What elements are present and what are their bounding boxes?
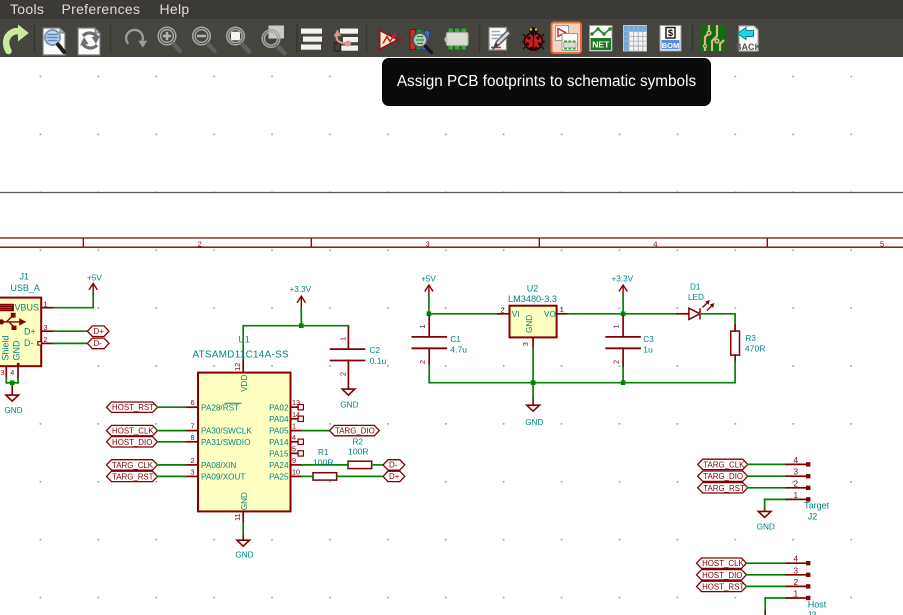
svg-text:J3: J3 — [807, 610, 817, 615]
icon: PCB editor — [701, 25, 726, 51]
svg-text:4: 4 — [653, 240, 657, 249]
svg-text:2: 2 — [612, 360, 621, 364]
svg-text:TARG_RST: TARG_RST — [703, 484, 745, 493]
svg-text:1: 1 — [612, 324, 621, 328]
tooltip — [382, 58, 711, 106]
separators — [35, 24, 693, 52]
global label HOST_DIO (J3) — [697, 570, 747, 580]
svg-text:4.7u: 4.7u — [450, 344, 467, 354]
wire +5V to U2 VI — [429, 297, 498, 314]
svg-text:HOST_CLK: HOST_CLK — [112, 427, 154, 436]
svg-text:PA02: PA02 — [269, 403, 289, 412]
svg-text:TARG_CLK: TARG_CLK — [112, 461, 154, 470]
svg-text:USB_A: USB_A — [10, 283, 40, 293]
svg-text:D-: D- — [24, 338, 34, 348]
global label TARG_DIO (U1) — [330, 425, 380, 435]
J3 designator — [807, 599, 827, 615]
svg-text:GND: GND — [12, 340, 22, 361]
svg-text:PA30/SWCLK: PA30/SWCLK — [201, 427, 252, 436]
svg-text:100R: 100R — [313, 458, 334, 468]
svg-text:+3.3V: +3.3V — [612, 274, 634, 283]
U2 pin 1 (VO) — [557, 305, 568, 314]
svg-text:12: 12 — [233, 363, 242, 371]
svg-text:TARG_DIO: TARG_DIO — [335, 427, 375, 436]
svg-text:J2: J2 — [808, 511, 818, 521]
svg-text:HOST_DIO: HOST_DIO — [702, 571, 742, 580]
sheet column numbers — [198, 240, 884, 249]
svg-text:100R: 100R — [348, 447, 369, 457]
svg-text:C2: C2 — [370, 346, 381, 355]
svg-text:GND: GND — [525, 315, 534, 333]
svg-text:ATSAMD11C14A-SS: ATSAMD11C14A-SS — [193, 350, 289, 361]
U1 left pin names — [201, 403, 252, 481]
global label TARG_DIO (J2) — [698, 471, 748, 481]
menu bar — [0, 0, 903, 19]
wire R3 to gnd rail — [734, 361, 736, 383]
svg-text:PA14: PA14 — [269, 438, 289, 447]
svg-text:3: 3 — [521, 342, 530, 346]
wire U2 gnd to rail — [532, 348, 534, 399]
global label TARG_RST (U1) — [107, 471, 158, 481]
wire PA05 to TARG_DIO — [302, 430, 329, 432]
junction (J1 gnd) — [10, 381, 15, 386]
icon: refresh view — [126, 30, 147, 48]
global label D+ (USB) — [87, 326, 109, 337]
svg-text:14: 14 — [292, 410, 300, 419]
wire C1 down to gnd rail — [429, 365, 533, 383]
toolbar — [0, 19, 903, 57]
U1 right pin names — [269, 403, 289, 481]
svg-text:$: $ — [668, 28, 673, 38]
U1 left pin numbers — [190, 398, 194, 476]
icon: back annotate — [735, 26, 761, 52]
U1 right pin stubs — [291, 405, 304, 477]
svg-text:GND: GND — [757, 522, 775, 531]
U1 VDD pin — [233, 361, 249, 392]
LED D1 — [677, 282, 714, 319]
svg-text:+3.3V: +3.3V — [290, 285, 312, 294]
svg-text:TARG_DIO: TARG_DIO — [703, 472, 743, 481]
J1 pin numbers — [1, 300, 48, 377]
sheet border frame — [0, 238, 903, 247]
svg-text:TARG_RST: TARG_RST — [112, 472, 154, 481]
svg-text:D-: D- — [389, 461, 398, 470]
wire +3.3V stem — [622, 297, 624, 314]
svg-text:PA04: PA04 — [269, 415, 289, 424]
wire D- — [54, 342, 88, 344]
resistor R2 — [348, 437, 372, 468]
svg-text:D1: D1 — [690, 282, 701, 291]
wire J1 pins 3,4 to GND — [6, 378, 18, 386]
svg-text:PA05: PA05 — [269, 427, 289, 436]
svg-text:PA25: PA25 — [269, 472, 289, 481]
U2 pin 2 (VI) — [498, 305, 510, 314]
icon: zoom selection — [227, 27, 249, 51]
junction (U2 gnd / rail) — [531, 380, 536, 385]
global label HOST_RST (J3) — [697, 581, 747, 591]
U2 pin 3 (GND) — [521, 337, 533, 348]
wire PA25 to R1 to D+ — [302, 475, 383, 477]
svg-text:2: 2 — [198, 240, 202, 249]
svg-text:NET: NET — [592, 40, 610, 50]
svg-text:PA15: PA15 — [269, 450, 289, 459]
svg-text:8: 8 — [190, 433, 194, 442]
svg-text:3: 3 — [426, 240, 430, 249]
svg-text:2: 2 — [338, 372, 347, 376]
icon: hierarchy navigator — [334, 29, 359, 52]
svg-text:1: 1 — [560, 305, 564, 314]
svg-text:3: 3 — [794, 468, 799, 477]
svg-text:BACK: BACK — [735, 42, 761, 52]
wires J3 labels to pins — [747, 563, 787, 610]
icon: zoom fit — [262, 26, 284, 54]
svg-text:GND: GND — [340, 401, 358, 410]
ground (U2) — [525, 399, 543, 427]
wire +3.3V rail to U1 and C2 — [243, 308, 348, 361]
resistor R3 — [731, 325, 766, 361]
svg-text:4: 4 — [794, 456, 799, 465]
U1 GND pin — [233, 492, 249, 523]
svg-text:HOST_CLK: HOST_CLK — [702, 559, 744, 568]
svg-text:3: 3 — [190, 467, 194, 476]
svg-text:1: 1 — [338, 337, 347, 341]
svg-text:D+: D+ — [24, 326, 36, 336]
svg-text:2: 2 — [44, 335, 48, 344]
svg-text:R2: R2 — [353, 437, 364, 446]
svg-text:0.1u: 0.1u — [370, 356, 387, 366]
svg-text:GND: GND — [240, 492, 249, 510]
svg-text:+5V: +5V — [87, 274, 102, 283]
junction (+3.3V rail) — [299, 323, 304, 328]
svg-text:D+: D+ — [94, 327, 105, 336]
svg-text:+5V: +5V — [421, 274, 436, 283]
svg-text:2: 2 — [418, 360, 427, 364]
icon: assign footprints (selected) — [552, 23, 582, 54]
svg-text:PA31/SWDIO: PA31/SWDIO — [201, 438, 250, 447]
connector J1 body — [0, 272, 41, 367]
svg-text:Target: Target — [804, 500, 830, 510]
icon: find in page — [43, 28, 65, 55]
global label HOST_CLK (J3) — [697, 558, 747, 568]
gnd rail wire — [533, 382, 735, 384]
connector J3 pins — [787, 561, 811, 600]
power +5V (USB) — [87, 274, 102, 295]
power +3.3V (rail) — [612, 274, 634, 296]
svg-text:PA08/XIN: PA08/XIN — [201, 461, 236, 470]
connector J2 pins — [787, 462, 811, 501]
svg-text:HOST_DIO: HOST_DIO — [112, 438, 152, 447]
icon: library browser — [410, 30, 432, 53]
svg-text:HOST_RST: HOST_RST — [112, 403, 154, 412]
svg-text:7: 7 — [190, 422, 194, 431]
icon: edit page — [489, 28, 511, 51]
svg-text:PA24: PA24 — [269, 461, 289, 470]
capacitor C3 — [605, 316, 654, 367]
mcu U1 body — [193, 334, 291, 511]
svg-text:470R: 470R — [745, 344, 766, 354]
global label TARG_RST (J2) — [698, 483, 748, 493]
wire U1 GND — [242, 523, 244, 536]
icon: footprint chip — [445, 29, 468, 50]
global label HOST_RST (U1) — [107, 402, 158, 412]
icon: refresh page — [78, 28, 100, 55]
svg-text:4: 4 — [292, 433, 296, 442]
svg-text:1u: 1u — [643, 344, 653, 354]
ground (J2) — [757, 509, 775, 531]
svg-text:C1: C1 — [450, 335, 461, 344]
icon: symbol table — [624, 26, 647, 52]
junction (+3.3V / C3) — [621, 312, 626, 317]
J1 pin stubs — [6, 308, 53, 378]
wire J3 pin1 gnd stub — [764, 610, 766, 615]
svg-text:U2: U2 — [527, 284, 539, 294]
svg-text:2: 2 — [501, 305, 505, 314]
icon: redo green arrow — [6, 25, 29, 52]
svg-text:Host: Host — [808, 599, 827, 609]
power +3.3V (MCU) — [290, 285, 312, 309]
svg-text:1: 1 — [418, 324, 427, 328]
svg-text:U1: U1 — [238, 334, 250, 344]
U1 right pin numbers — [292, 398, 300, 476]
svg-text:6: 6 — [190, 398, 194, 407]
icon: sheet list — [301, 29, 322, 50]
icon: zoom in — [158, 27, 180, 51]
capacitor C1 — [412, 316, 468, 365]
svg-text:3: 3 — [794, 567, 799, 576]
svg-text:4: 4 — [10, 368, 14, 377]
voltage regulator U2 body — [508, 284, 557, 338]
svg-text:9: 9 — [292, 456, 296, 465]
wire C3 to gnd rail — [622, 367, 624, 383]
svg-text:LM3480-3.3: LM3480-3.3 — [508, 294, 557, 304]
svg-text:GND: GND — [4, 406, 22, 415]
ground (J1) — [4, 386, 22, 415]
page top edge line — [0, 192, 903, 194]
global label D- (USB) — [87, 338, 109, 349]
wire PA24 to R2 to D- — [302, 464, 383, 466]
global label D- (U1) — [383, 460, 405, 470]
J3 pin numbers — [794, 555, 799, 599]
icon: zoom out — [193, 27, 215, 51]
svg-text:VBUS: VBUS — [15, 303, 40, 313]
svg-text:2: 2 — [794, 578, 799, 587]
svg-text:GND: GND — [525, 418, 543, 427]
svg-text:TARG_CLK: TARG_CLK — [703, 460, 745, 469]
svg-text:BOM: BOM — [662, 41, 680, 50]
global label TARG_CLK (U1) — [107, 460, 158, 470]
global label HOST_CLK (U1) — [107, 425, 158, 435]
junction (+5V / C1) — [427, 312, 432, 317]
wire U2 VO to +3.3V / C3 / D1 — [568, 313, 678, 315]
icon: ERC ladybug — [522, 27, 545, 50]
svg-text:VI: VI — [512, 310, 520, 319]
capacitor C2 — [330, 328, 387, 390]
svg-text:1: 1 — [292, 422, 296, 431]
svg-text:HOST_RST: HOST_RST — [702, 582, 744, 591]
svg-text:R1: R1 — [318, 448, 329, 457]
svg-text:GND: GND — [235, 550, 253, 559]
svg-text:R3: R3 — [746, 334, 757, 343]
svg-text:1: 1 — [794, 590, 799, 599]
global label TARG_CLK (J2) — [698, 459, 748, 469]
svg-text:13: 13 — [292, 398, 300, 407]
wires J2 labels to pins — [748, 464, 787, 509]
svg-text:VO: VO — [544, 310, 556, 319]
svg-text:4: 4 — [794, 555, 799, 564]
wire VBUS to +5V — [54, 295, 94, 308]
svg-text:5: 5 — [292, 445, 296, 454]
global label HOST_DIO (U1) — [107, 437, 158, 447]
J2 designator — [804, 500, 830, 521]
icon: run simulation — [377, 30, 403, 50]
wires labels to U1 left pins — [158, 407, 186, 476]
svg-text:10: 10 — [292, 467, 300, 476]
wire D+ — [54, 330, 88, 332]
J2 pin numbers — [794, 456, 799, 500]
svg-text:Shield: Shield — [1, 335, 11, 360]
svg-text:C3: C3 — [643, 335, 654, 344]
junction (C3 / rail) — [621, 380, 626, 385]
svg-text:11: 11 — [233, 513, 242, 521]
icon: BOM — [660, 26, 681, 52]
ground (U1) — [235, 535, 253, 559]
J1 pin labels inside — [1, 303, 39, 361]
svg-text:PA28/RST: PA28/RST — [201, 403, 239, 412]
resistor R1 — [313, 448, 337, 480]
svg-text:5: 5 — [880, 240, 884, 249]
svg-text:2: 2 — [794, 479, 799, 488]
svg-text:VDD: VDD — [240, 375, 249, 392]
svg-text:LED: LED — [688, 293, 704, 302]
svg-text:J1: J1 — [20, 272, 30, 282]
svg-text:PA09/XOUT: PA09/XOUT — [201, 472, 245, 481]
global label D+ (U1) — [383, 471, 405, 481]
U1 left pin stubs — [186, 407, 199, 476]
wire D1 to R3 — [700, 314, 735, 325]
svg-text:D+: D+ — [389, 472, 400, 481]
svg-text:3: 3 — [1, 368, 5, 377]
icon: netlist — [590, 26, 613, 52]
USB trident icon — [0, 313, 26, 330]
svg-text:2: 2 — [190, 456, 194, 465]
svg-text:1: 1 — [794, 491, 799, 500]
power +5V — [421, 274, 436, 296]
USB plug icon — [0, 305, 13, 311]
ground (C2) — [340, 389, 358, 410]
svg-text:D-: D- — [94, 339, 103, 348]
